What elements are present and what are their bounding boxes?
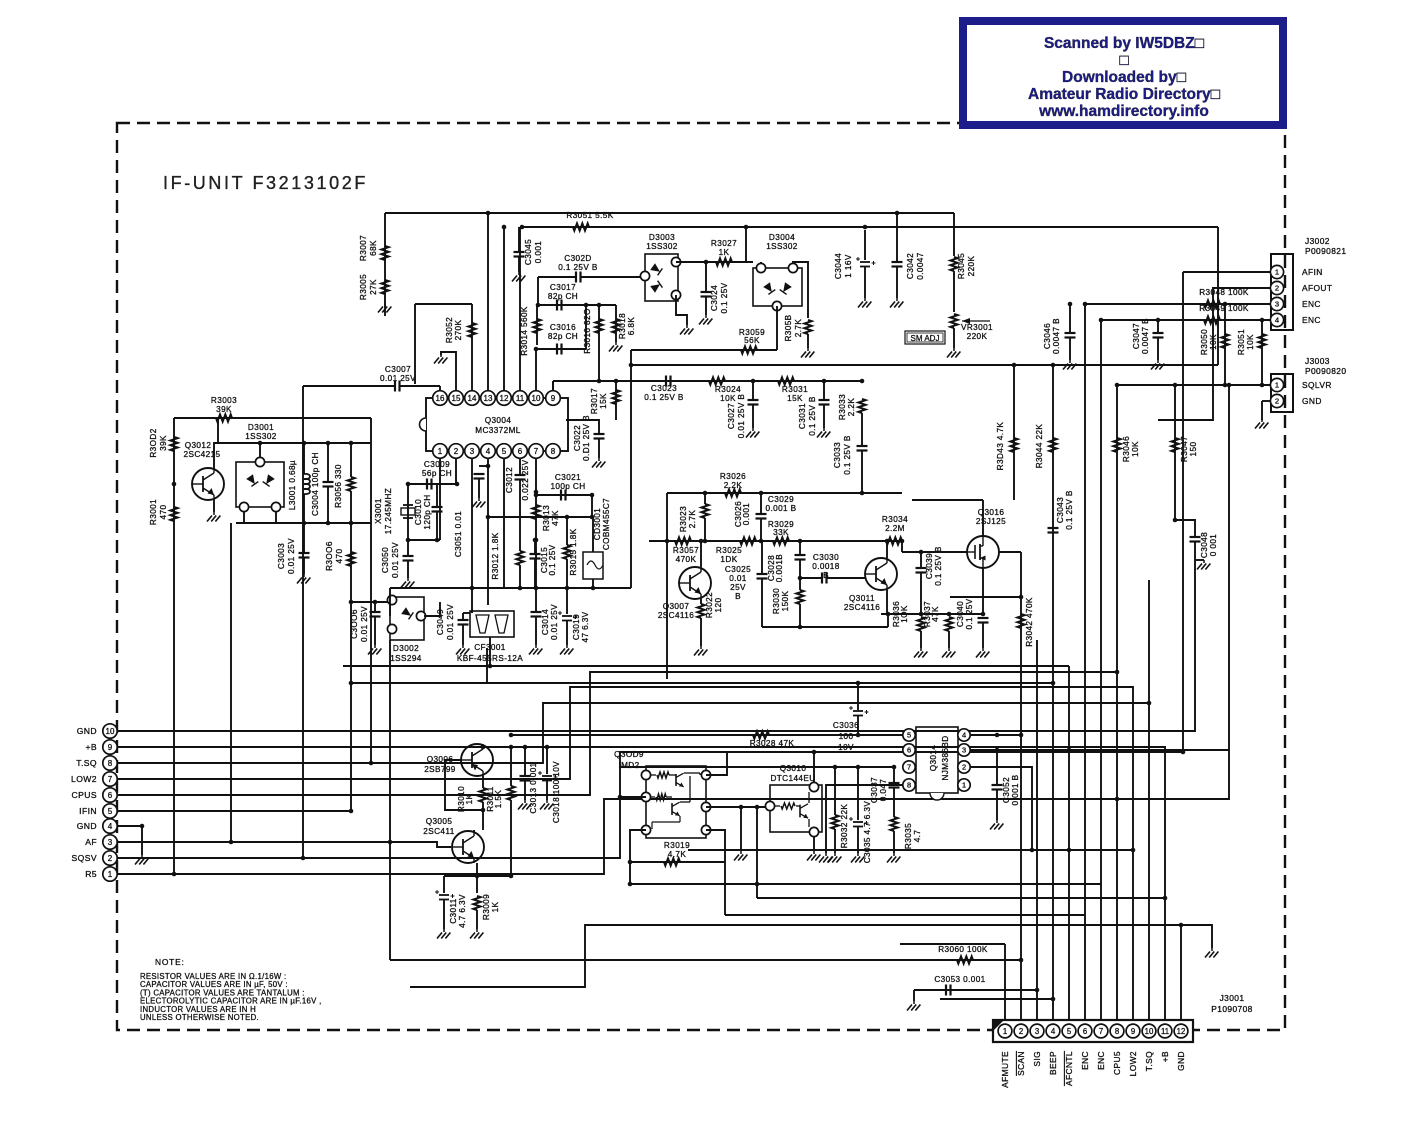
svg-text:1SS302: 1SS302 <box>646 242 678 251</box>
wire Q3006 collector <box>482 776 484 788</box>
wire y552 gate <box>902 551 967 553</box>
label R3003 value <box>216 405 232 414</box>
svg-text:R3005: R3005 <box>359 274 368 300</box>
svg-text:47 6.3V: 47 6.3V <box>581 611 590 642</box>
left pad pin 4 <box>103 819 117 833</box>
resistor R3016 <box>595 319 602 333</box>
label Q3010 <box>780 764 807 773</box>
junction L3001 bottom <box>302 521 307 526</box>
IC Q3004 pin 12 <box>497 391 512 406</box>
junction +B C3013 <box>523 745 528 750</box>
ground R3035 <box>887 853 900 863</box>
wire y495 <box>536 494 592 496</box>
J3001 signal label BEEP <box>1048 1051 1058 1075</box>
svg-text:R3013: R3013 <box>542 505 551 531</box>
svg-text:8: 8 <box>551 447 556 456</box>
label Q3012 <box>185 441 212 450</box>
svg-text:100p CH: 100p CH <box>550 482 585 491</box>
label Q3011 part <box>844 603 880 612</box>
wire R3018 column <box>615 305 617 342</box>
svg-text:AFCNTL: AFCNTL <box>1064 1051 1074 1086</box>
label P0090820 <box>1305 366 1346 376</box>
resistor R3051 <box>573 223 589 230</box>
wire x1021 column <box>1020 552 1022 1020</box>
svg-text:11: 11 <box>516 394 525 403</box>
J3001 signal label LOW2 <box>1128 1051 1138 1076</box>
wire x371 trunk <box>370 418 372 763</box>
J3002 signal label ENC <box>1302 299 1321 309</box>
svg-text:R305B: R305B <box>784 314 793 341</box>
capacitor C3051 <box>474 474 485 479</box>
capacitor C3030 <box>822 573 827 584</box>
junction y381 x753 <box>751 379 756 384</box>
wire Q3016 drain <box>999 551 1021 553</box>
label C3046 0.0047 B <box>1043 318 1061 354</box>
svg-text:C3048: C3048 <box>1200 532 1209 558</box>
wire C3033 lower <box>861 451 863 494</box>
label Q3007 <box>663 602 690 611</box>
junction y735 x858 <box>856 733 861 738</box>
connector J3001 pin 1 <box>998 1024 1012 1038</box>
svg-text:6: 6 <box>907 746 911 755</box>
svg-text:R3044 22K: R3044 22K <box>1035 424 1044 469</box>
svg-text:C3046: C3046 <box>1043 323 1052 349</box>
header text line <box>1028 86 1221 103</box>
svg-text:150K: 150K <box>781 591 790 612</box>
svg-text:0.1 25V B: 0.1 25V B <box>808 396 817 436</box>
resistor R3050 <box>1221 334 1228 348</box>
label R3007 68K <box>359 235 378 261</box>
label R3043 4.7K <box>996 422 1005 471</box>
IC Q3004 pin 7 <box>529 444 544 459</box>
junction rail x472 <box>470 586 475 591</box>
resistor R3042 <box>1017 614 1024 628</box>
junction y990 x1037 <box>1035 988 1040 993</box>
junction C3024 top <box>704 260 709 265</box>
wire Q3016 top <box>982 500 984 536</box>
svg-text:7: 7 <box>534 447 539 456</box>
junction R3017 top <box>614 379 619 384</box>
svg-text:Q3016: Q3016 <box>978 508 1005 517</box>
junction C3048 jog <box>1173 518 1178 523</box>
svg-text:C3049: C3049 <box>436 609 445 635</box>
wire D3001 rail top <box>218 442 371 444</box>
wire x1053 lower <box>1052 683 1054 1020</box>
label R3031 <box>782 385 808 394</box>
svg-text:C3022: C3022 <box>573 425 582 451</box>
junction pin12 top <box>502 225 507 230</box>
resistor R3005 <box>381 280 388 294</box>
wire C3052 lower <box>996 790 998 821</box>
ground C3019 <box>560 645 573 655</box>
svg-text:470: 470 <box>335 549 344 564</box>
svg-text:Scanned by IW5DBZ□: Scanned by IW5DBZ□ <box>1044 35 1205 52</box>
svg-text:3: 3 <box>1275 300 1279 309</box>
wire R3017 column <box>615 381 617 420</box>
wire R3047 column <box>1174 385 1176 520</box>
capacitor C3047 <box>1153 333 1164 338</box>
junction y683 x351 <box>349 681 354 686</box>
svg-text:C3053 0.001: C3053 0.001 <box>934 975 985 984</box>
label C3033 0.1 25V B <box>833 435 852 475</box>
wire x231 trunk <box>230 523 232 842</box>
junction y493 x761 <box>759 491 764 496</box>
svg-text:0.001 B: 0.001 B <box>1011 774 1020 805</box>
svg-text:C3029: C3029 <box>768 495 794 504</box>
left pad pin 7 <box>103 772 117 786</box>
svg-text:2: 2 <box>1275 284 1279 293</box>
wire rail y588 <box>390 587 631 589</box>
wire rail left drop <box>389 588 391 616</box>
wire pin7 left <box>620 766 896 768</box>
capacitor C3024 <box>701 292 712 297</box>
svg-text:R3045: R3045 <box>957 253 966 279</box>
IC Q3004 pin 5 <box>497 444 512 459</box>
svg-text:100: 100 <box>839 732 854 741</box>
wire C3007 left <box>303 385 395 387</box>
junction pin2 x1032 <box>1030 848 1035 853</box>
wire AFOUT <box>1158 288 1270 420</box>
svg-text:68K: 68K <box>369 240 378 256</box>
capacitor C3036 <box>849 706 869 716</box>
wire y999 run <box>940 998 1053 1000</box>
wire R3058 lower <box>807 334 809 348</box>
J3001 signal label +B <box>1160 1051 1170 1062</box>
wire gnd stub tr <box>1195 559 1204 561</box>
IC Q3014 pin 1 <box>958 779 970 791</box>
junction y925 x1181 <box>1179 923 1184 928</box>
label R3013 47K <box>542 505 560 531</box>
left pad label CPUS <box>72 790 97 800</box>
wire x1149 column <box>1148 580 1150 1020</box>
svg-text:COBM455C7: COBM455C7 <box>602 498 611 550</box>
wire C3049 top <box>462 613 464 620</box>
label Q3010 part <box>770 774 815 783</box>
label C3042 0.0047 <box>906 252 925 279</box>
svg-text:P0090821: P0090821 <box>1305 246 1346 256</box>
wire Q3014 pin2 <box>970 767 1032 850</box>
J3001 signal label SCAN <box>1016 1051 1026 1076</box>
wire Q3014 pin4 <box>970 734 1021 736</box>
label R3028 47K <box>750 739 795 748</box>
resistor R3027 <box>716 258 732 265</box>
svg-text:C3010: C3010 <box>414 499 423 525</box>
svg-text:R3048 100K: R3048 100K <box>1199 288 1249 297</box>
label C3030 B <box>823 571 829 580</box>
junction y627 x800 <box>798 625 803 630</box>
label R3031 value <box>787 394 803 403</box>
junction y898 x1165 <box>1163 896 1168 901</box>
svg-text:1K: 1K <box>719 248 730 257</box>
wire pin8 down <box>826 785 903 853</box>
wire y735 <box>511 734 903 736</box>
J3001 signal label AFCNTL <box>1064 1051 1074 1086</box>
capacitor C3025 <box>757 574 768 579</box>
svg-text:2: 2 <box>108 854 113 863</box>
wire y944 run <box>900 943 1005 945</box>
svg-text:1K: 1K <box>491 901 500 912</box>
svg-text:1 16V: 1 16V <box>844 254 853 278</box>
left pad label LOW2 <box>71 774 97 784</box>
header text line <box>1062 69 1187 86</box>
svg-text:13: 13 <box>484 394 493 403</box>
junction R3032 top <box>833 765 838 770</box>
VR3001 wiper arrow <box>962 318 990 324</box>
capacitor C3035 <box>849 817 869 827</box>
wire C3035 column <box>857 767 859 820</box>
wire x631 link <box>630 350 632 588</box>
IC Q3014 pin 5 <box>903 729 915 741</box>
label C3040 0.1 25V <box>956 598 974 629</box>
J3002 signal label ENC <box>1302 315 1321 325</box>
wire C3046 column <box>1069 304 1071 333</box>
wire y602 stub <box>351 601 392 603</box>
svg-text:IFIN: IFIN <box>79 806 97 816</box>
label C3045 0.001 <box>524 239 543 265</box>
label C3017 value <box>548 292 578 301</box>
svg-text:8: 8 <box>907 781 911 790</box>
svg-text:R3OD2: R3OD2 <box>149 428 158 457</box>
svg-text:R3001: R3001 <box>149 499 158 525</box>
svg-text:R3026: R3026 <box>720 472 746 481</box>
svg-text:5: 5 <box>502 447 507 456</box>
label R3023 2.7K <box>679 506 697 532</box>
wire pin6 down b <box>519 480 521 552</box>
svg-text:10: 10 <box>532 394 541 403</box>
junction GND4 <box>140 824 145 829</box>
connector J3001 pin 7 <box>1094 1024 1108 1038</box>
connector J3001 pin 3 <box>1030 1024 1044 1038</box>
wire R3022 lower <box>700 618 702 646</box>
label C3035 4.7 6.3V <box>863 801 872 864</box>
svg-text:2SB799: 2SB799 <box>424 765 456 774</box>
junction x371 y763 <box>369 761 374 766</box>
wire x746 drop <box>745 227 747 262</box>
svg-text:0.01: 0.01 <box>729 574 747 583</box>
capacitor C3003 <box>299 553 310 558</box>
label R3050 10K <box>1200 329 1218 355</box>
filter CF3001 <box>470 611 514 637</box>
svg-text:1: 1 <box>1003 1027 1007 1036</box>
svg-text:7: 7 <box>1099 1027 1103 1036</box>
ground R3058 <box>801 348 814 358</box>
J3003 pin 2 <box>1270 394 1283 407</box>
label CF3001 part <box>457 654 523 663</box>
label Q3009 part <box>618 761 639 770</box>
IC Q3014 pin 7 <box>903 761 915 773</box>
capacitor C3050 <box>403 556 414 561</box>
wire C3030 right <box>827 577 867 579</box>
wire C3045 column <box>518 227 520 252</box>
svg-text:R3D43 4.7K: R3D43 4.7K <box>996 422 1005 471</box>
svg-text:C3OO6: C3OO6 <box>350 609 359 639</box>
ground C3040 <box>976 648 989 658</box>
left pad label GND <box>77 726 97 736</box>
wire R3011 column <box>510 747 512 786</box>
junction y552 x921 <box>919 550 924 555</box>
wire R3037 column <box>948 614 950 616</box>
junction x375 y602 <box>373 600 378 605</box>
svg-text:82p CH: 82p CH <box>548 292 578 301</box>
label C3049 0.01 25V <box>436 604 455 640</box>
wire C3026 bottom <box>760 519 762 542</box>
svg-text:R3030: R3030 <box>772 588 781 614</box>
svg-text:ENC: ENC <box>1080 1051 1090 1070</box>
label C3030 value <box>812 562 839 571</box>
svg-text:17.245MHZ: 17.245MHZ <box>384 488 393 534</box>
svg-text:56p CH: 56p CH <box>422 469 452 478</box>
svg-text:ENC: ENC <box>1302 315 1321 325</box>
note text line <box>140 988 305 997</box>
J3001 signal label T.SQ <box>1144 1051 1154 1071</box>
resistor R3032 <box>831 815 838 829</box>
resistor R3003 <box>216 414 232 421</box>
label C3014 0.01 25V <box>541 604 559 640</box>
wire C3004 bottom <box>327 487 329 524</box>
wire R3037 lower <box>948 631 950 648</box>
svg-text:2: 2 <box>1019 1027 1023 1036</box>
svg-text:1: 1 <box>108 870 113 879</box>
label R3011 1.5K <box>486 786 503 812</box>
wire Q3005 emitter <box>476 863 478 893</box>
label R3034 value <box>885 524 905 533</box>
junction y541 x761 <box>759 539 764 544</box>
diode D3002 internals <box>387 595 425 633</box>
transistor array Q3009 box <box>646 766 706 838</box>
svg-text:IF-UNIT F3213102F: IF-UNIT F3213102F <box>163 173 368 193</box>
wire pin7 down <box>535 459 537 588</box>
label C302D value <box>558 263 598 272</box>
wire C3026 top <box>760 493 762 514</box>
title IF-UNIT F3213102F <box>163 173 368 193</box>
svg-text:VR3001: VR3001 <box>961 323 993 332</box>
wire C3006 column <box>374 602 376 612</box>
svg-text:3: 3 <box>108 838 113 847</box>
junction x757 y807 <box>755 805 760 810</box>
IC Q3004 pin 2 <box>449 444 464 459</box>
junction IFIN <box>349 809 354 814</box>
label R3033 2.2K <box>838 394 856 420</box>
capacitor C3010 <box>432 507 443 512</box>
wire pin14 column <box>471 304 473 391</box>
resistor R3025 <box>740 537 756 544</box>
capacitor C3027 <box>748 400 759 405</box>
resistor R3060 <box>957 956 973 963</box>
svg-text:1: 1 <box>962 781 966 790</box>
svg-text:220K: 220K <box>967 256 976 277</box>
label R3029 <box>768 520 794 529</box>
svg-text:C3040: C3040 <box>956 601 965 627</box>
svg-text:C3044: C3044 <box>834 253 843 279</box>
junction x1085 y304 <box>1083 302 1088 307</box>
label C3011 4.7 6.3V <box>449 894 467 928</box>
label R3002 39K <box>149 428 168 457</box>
label C3017 <box>550 283 576 292</box>
svg-text:12: 12 <box>500 394 509 403</box>
svg-text:8: 8 <box>1115 1027 1119 1036</box>
left pad label R5 <box>85 869 97 879</box>
left pad pin 5 <box>103 804 117 818</box>
IC Q3004 pin 6 <box>513 444 528 459</box>
ground x741 <box>734 851 747 861</box>
wire x490 link <box>489 637 491 666</box>
wire CPUS6 run <box>117 672 1117 1020</box>
wire y484 <box>408 483 457 485</box>
svg-text:56K: 56K <box>744 336 760 345</box>
svg-text:0.001 B: 0.001 B <box>765 504 796 513</box>
svg-text:1DK: 1DK <box>720 555 737 564</box>
junction Q3010 top <box>812 750 817 755</box>
svg-text:R3003: R3003 <box>211 396 237 405</box>
resistor R3046 <box>1113 438 1120 452</box>
label C3027 0.01 25V B <box>727 394 746 439</box>
svg-text:47K: 47K <box>931 606 940 622</box>
ground C3046 <box>1063 360 1076 370</box>
connector J3001 body <box>993 1020 1193 1042</box>
label J3003 <box>1305 356 1330 366</box>
resistor R3002 <box>170 437 177 451</box>
svg-text:10: 10 <box>1145 1027 1154 1036</box>
capacitor C3016 <box>557 344 562 355</box>
svg-text:0.001: 0.001 <box>742 503 751 526</box>
label CD3001 COBM455C7 <box>593 498 611 550</box>
ground D3003 <box>680 325 693 335</box>
wire pin3 down <box>471 459 473 613</box>
potentiometer VR3001 <box>950 314 957 328</box>
svg-text:C3036: C3036 <box>833 721 859 730</box>
svg-text:GND: GND <box>77 726 97 736</box>
wire C3052 column <box>996 750 998 785</box>
junction y493 x705 <box>703 491 708 496</box>
ground Q3012 <box>207 512 220 522</box>
junction R3050 bottom <box>1223 383 1228 388</box>
resistor R3030 <box>796 590 803 604</box>
junction AFIN x1183 <box>1181 750 1186 755</box>
label R3057 value <box>676 555 697 564</box>
svg-text:R3031: R3031 <box>782 385 808 394</box>
wire C3025 top <box>761 541 763 574</box>
J3002 pin 1 <box>1270 265 1283 278</box>
wire Q3014 pin3 <box>970 749 1229 751</box>
wire C3015 links <box>534 540 536 554</box>
svg-text:5: 5 <box>108 807 113 816</box>
label P0090821 <box>1305 246 1346 256</box>
wire R3050 column <box>1224 304 1226 385</box>
wire C3024 lower <box>705 297 707 316</box>
junction C3047 top <box>1156 318 1161 323</box>
ground C3053 <box>907 1001 920 1011</box>
junction y884 x630 <box>628 882 633 887</box>
junction y541 x705 <box>703 539 708 544</box>
svg-text:2SJ125: 2SJ125 <box>976 517 1006 526</box>
junction C3004 bottom <box>326 521 331 526</box>
ceramic disc CD3001 <box>583 552 603 579</box>
wire R3048 <box>1085 303 1270 305</box>
svg-text:0.1 25V B: 0.1 25V B <box>644 393 684 402</box>
resistor R3018 <box>612 319 619 333</box>
label R3052 270K <box>445 317 463 343</box>
wire C3039 top <box>920 552 922 568</box>
ground C3018 <box>540 800 553 810</box>
label C3013 0.001 <box>529 762 538 813</box>
wire C3020 left <box>538 276 576 278</box>
left pad label T.SQ <box>76 758 97 768</box>
label C3007 value <box>380 374 416 383</box>
label C3010 120p CH <box>414 494 432 529</box>
resistor R3031 <box>778 377 794 384</box>
capacitor C3022 <box>594 434 605 439</box>
capacitor C3020 <box>576 272 581 283</box>
